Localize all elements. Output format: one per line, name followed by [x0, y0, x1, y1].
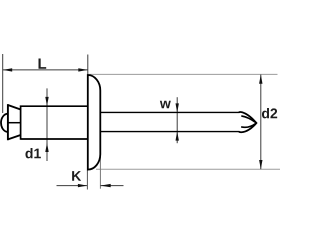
dimension line d1	[45, 88, 48, 161]
mandrel tip (pointed beak)	[239, 112, 257, 132]
label d1	[25, 148, 40, 158]
mandrel ball head arc	[1, 114, 8, 132]
label L	[39, 58, 47, 68]
extension line d2 bottom (flange bottom, gray)	[96, 168, 280, 170]
dimension line K (left part with right-pointing arrow)	[57, 184, 88, 187]
extension line K left	[86, 170, 88, 189]
extension line K right	[99, 155, 101, 189]
mandrel stem line through head	[8, 122, 21, 124]
dimension line L	[3, 68, 88, 71]
label K	[72, 171, 81, 181]
extension line L left	[2, 54, 4, 113]
extension line L right	[87, 55, 89, 76]
dimension line w	[176, 97, 179, 143]
mandrel head cone (trapezoid at left end)	[8, 104, 21, 140]
dimension line d2	[259, 75, 262, 170]
dimension line K (right part with left-pointing arrow)	[100, 184, 123, 187]
mandrel stem	[101, 112, 239, 131]
label w	[160, 101, 171, 108]
label d2	[262, 108, 277, 118]
rivet body (shank tube)	[21, 105, 88, 139]
flange (dome head, side view)	[88, 75, 101, 170]
extension line d2 top (flange top, gray)	[88, 73, 277, 75]
